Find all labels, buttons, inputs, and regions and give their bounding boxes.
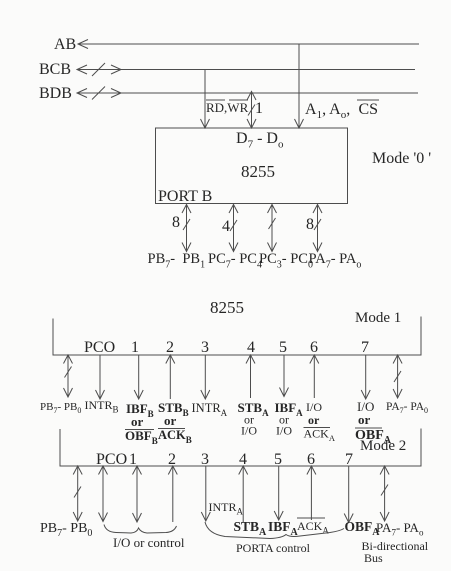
svg-text:1: 1 <box>255 100 263 117</box>
label PORTA control <box>236 541 311 555</box>
svg-text:5: 5 <box>274 451 282 468</box>
svg-text:4: 4 <box>247 339 255 356</box>
wire mode2 ACKA up arrow <box>307 466 316 520</box>
label mode2 OBFA <box>345 519 381 538</box>
svg-text:PA7- PA0: PA7- PA0 <box>386 401 428 415</box>
label I/O or ACKA <box>304 400 336 443</box>
wire port B double arrow with slash 8 <box>172 205 191 252</box>
wire mode1 INTRA down arrow <box>201 355 210 399</box>
label I/O or OBFA <box>355 399 392 446</box>
label mode2 STBA <box>234 519 268 538</box>
wire mode2 STBA up arrow <box>239 466 248 522</box>
label IBFA or I/O <box>275 400 304 438</box>
label Mode '0' <box>372 150 431 167</box>
wire RD WR control drop into box <box>201 70 210 129</box>
svg-text:Bus: Bus <box>364 551 383 565</box>
label mode1 PA7-PA0 <box>386 401 428 415</box>
label Bi-directional Bus <box>362 539 429 565</box>
svg-text:I/O: I/O <box>276 424 292 438</box>
svg-text:or: or <box>358 412 371 427</box>
wire mode1 IBFB down arrow <box>134 355 143 399</box>
label mode2 IBFA <box>268 519 299 538</box>
node BCB label <box>39 61 71 78</box>
wire port A double arrow with slash 8 <box>306 205 322 252</box>
svg-text:2: 2 <box>168 451 176 468</box>
svg-text:8255: 8255 <box>210 298 244 317</box>
svg-text:PORT B: PORT B <box>158 188 212 205</box>
label PB7- PB1 <box>148 251 206 271</box>
svg-text:PB7- PB0: PB7- PB0 <box>40 401 81 415</box>
svg-text:2: 2 <box>166 339 174 356</box>
label 8255 mode1 title <box>210 298 244 317</box>
wire mode2 IBFA down arrow <box>274 466 283 520</box>
wire data bus double arrow from BDB to box <box>247 92 256 129</box>
svg-text:3: 3 <box>201 451 209 468</box>
svg-text:I/O or control: I/O or control <box>113 535 185 550</box>
svg-text:7: 7 <box>361 339 369 356</box>
brace PORTA control <box>205 522 344 539</box>
wire mode2 up arrow c <box>168 466 177 522</box>
label STBB or ACKB <box>158 400 192 445</box>
svg-text:or: or <box>131 414 144 429</box>
label PC7- PC4 <box>208 251 262 271</box>
wire mode1 STBA up arrow <box>246 355 255 398</box>
wire address drop from AB into box <box>295 44 304 128</box>
block 8255 box <box>156 128 348 204</box>
wire mode1 IBFA down arrow <box>280 355 289 397</box>
label I/O or control <box>113 535 185 550</box>
label mode2 ACKA with overline <box>297 518 329 536</box>
label pin numbers mode1 <box>131 339 369 356</box>
label mode2 PB7-PB0 <box>40 521 92 539</box>
label bus width 1 <box>255 100 263 117</box>
svg-text:PCO: PCO <box>84 339 115 356</box>
wire mode1 OBFA down arrow <box>361 355 370 399</box>
svg-text:6: 6 <box>310 339 318 356</box>
svg-text:Mode '0 ': Mode '0 ' <box>372 150 431 167</box>
svg-text:Mode 1: Mode 1 <box>355 310 401 326</box>
wire mode2 INTRA down arrow <box>201 466 210 521</box>
wire mode1 PA double arrow <box>393 355 402 398</box>
label PCO mode2 <box>96 451 127 468</box>
label IBFB or OBFB <box>125 401 158 446</box>
label PORT B <box>158 188 212 205</box>
wire mode1 INTRB down arrow <box>96 355 105 399</box>
svg-text:or: or <box>308 413 320 427</box>
wire mode1 bracket line <box>53 317 421 356</box>
svg-text:8255: 8255 <box>241 162 275 181</box>
svg-text:BCB: BCB <box>39 61 71 78</box>
label RD,WR with overlines <box>206 100 249 115</box>
svg-text:or: or <box>164 413 177 428</box>
label mode2 PA7-PA0 <box>376 520 424 538</box>
label INTRB <box>85 398 119 415</box>
label Mode 1 <box>355 310 401 326</box>
wire mode2 bracket line <box>60 429 421 467</box>
svg-text:PORTA control: PORTA control <box>236 541 311 555</box>
svg-text:7: 7 <box>345 451 353 468</box>
svg-text:8: 8 <box>172 214 180 231</box>
label Mode 2 <box>360 438 406 454</box>
wire mode2 PB double arrow with slash <box>73 466 82 521</box>
wire BCB bus line double arrow with slash <box>77 63 415 76</box>
svg-text:4: 4 <box>222 218 230 235</box>
label mode2 INTRA <box>209 500 244 517</box>
wire port C upper double arrow with slash 4 <box>222 205 238 252</box>
brace I/O or control <box>104 525 177 534</box>
svg-text:RD,WR: RD,WR <box>206 100 249 115</box>
node AB label <box>54 36 76 53</box>
wire AB bus line with left arrowhead <box>78 40 419 49</box>
wire mode1 PB double arrow <box>64 355 73 397</box>
svg-text:3: 3 <box>201 339 209 356</box>
label PC3- PC0 <box>259 251 313 271</box>
label pin numbers mode2 <box>129 451 353 468</box>
svg-text:5: 5 <box>279 339 287 356</box>
label PCO mode1 <box>84 339 115 356</box>
label INTRA mode1 <box>192 401 228 418</box>
svg-text:Mode 2: Mode 2 <box>360 438 406 454</box>
label 8255 inside box <box>241 162 275 181</box>
label D7 - D0 <box>236 130 284 151</box>
label PA7- PA0 <box>309 251 362 271</box>
svg-text:PCO: PCO <box>96 451 127 468</box>
label mode1 PB7-PB0 <box>40 401 81 415</box>
wire mode2 double arrow b <box>133 466 142 522</box>
svg-text:6: 6 <box>307 451 315 468</box>
svg-text:8: 8 <box>306 216 314 233</box>
wire mode2 OBFA down arrow <box>344 466 353 523</box>
wire BDB bus line double arrow with slash <box>77 87 418 100</box>
svg-text:AB: AB <box>54 36 76 53</box>
svg-text:PA7- PAo: PA7- PAo <box>376 520 424 538</box>
wire mode2 double arrow a <box>99 466 108 522</box>
svg-text:I/O: I/O <box>241 424 257 438</box>
wire port C lower double arrow with slash <box>268 205 277 252</box>
wire mode1 ACKA up arrow <box>310 355 319 398</box>
wire mode1 STBB up arrow <box>166 355 175 399</box>
label STBA or I/O <box>238 400 270 438</box>
label A1, A0, CS <box>305 100 379 121</box>
svg-text:1: 1 <box>131 339 139 356</box>
wire mode2 PA double arrow with slash <box>380 466 389 521</box>
svg-text:BDB: BDB <box>39 85 72 102</box>
svg-text:I/O: I/O <box>306 400 322 414</box>
node BDB label <box>39 85 72 102</box>
svg-text:1: 1 <box>129 451 137 468</box>
